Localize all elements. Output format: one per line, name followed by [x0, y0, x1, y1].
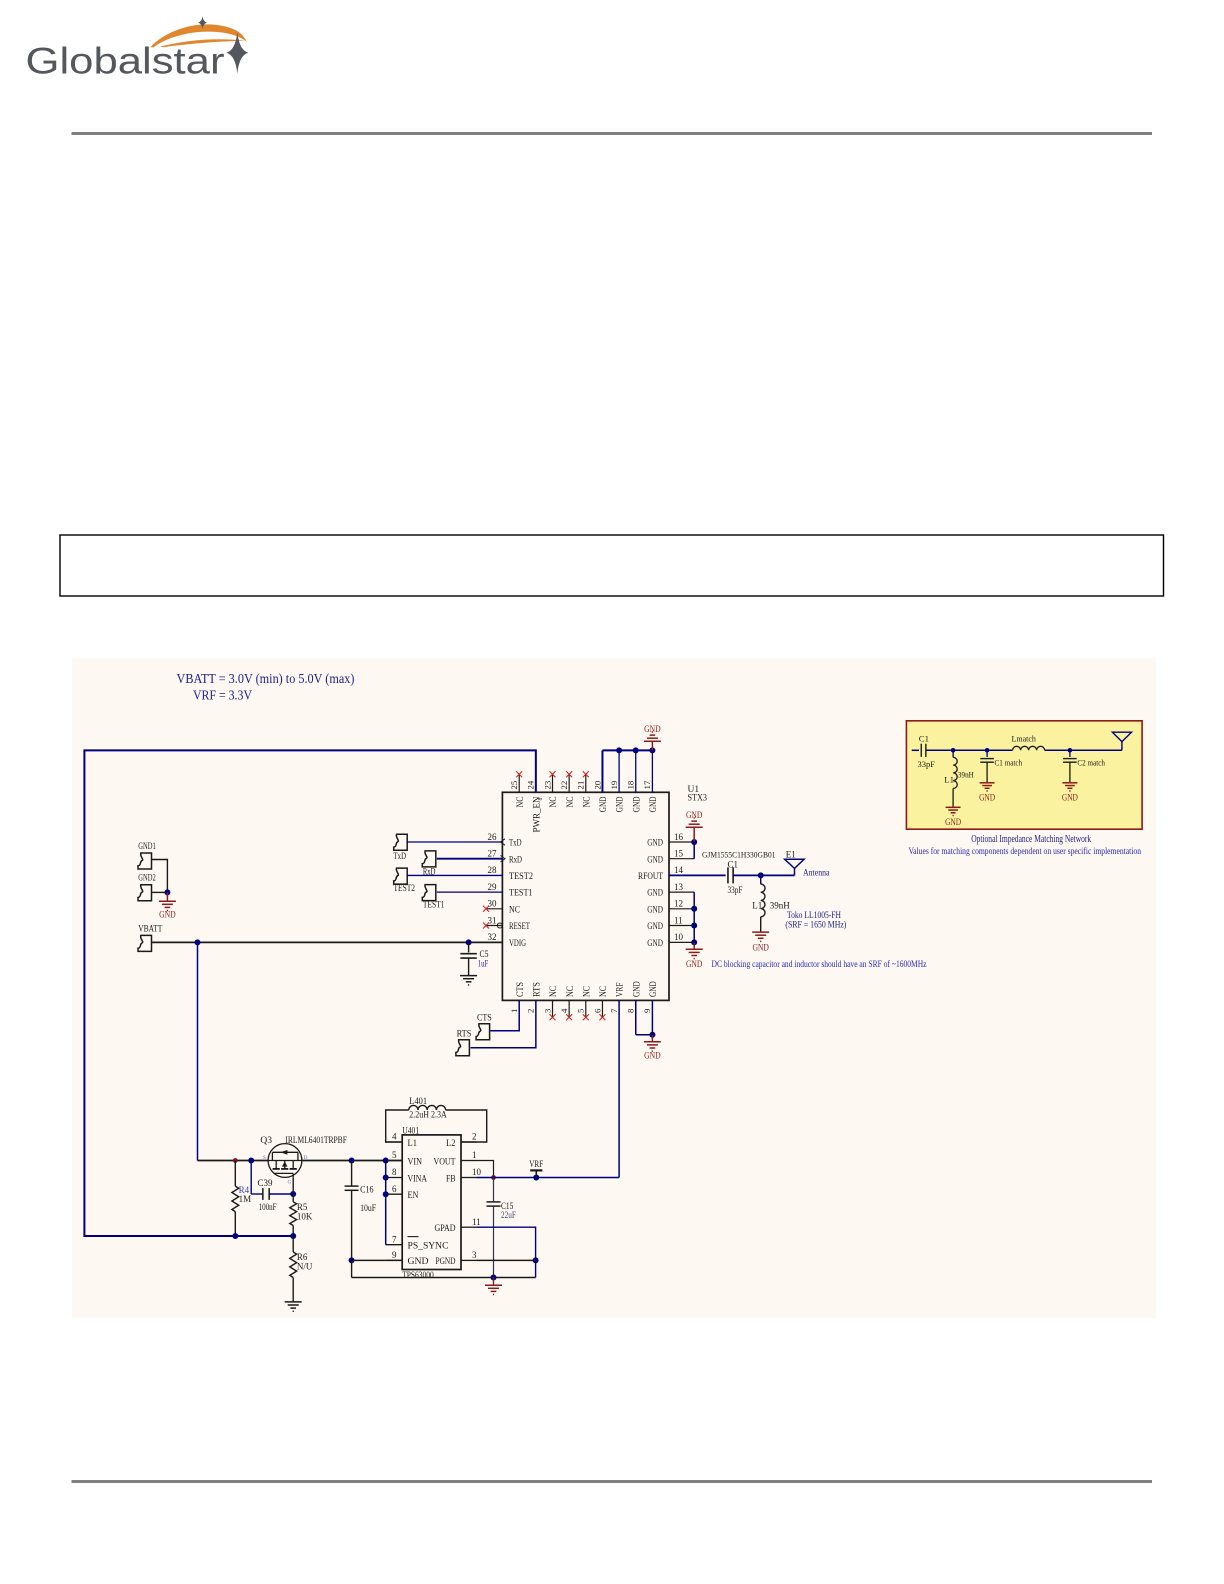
- resistor R4: [234, 1161, 236, 1187]
- svg-text:1M: 1M: [239, 1194, 252, 1204]
- junction R5 bottom: [232, 1233, 238, 1239]
- svg-text:L2: L2: [446, 1138, 456, 1149]
- svg-text:16: 16: [674, 832, 684, 842]
- capacitor C1 match series: [920, 744, 922, 757]
- junction VRF: [533, 1175, 539, 1181]
- svg-text:FB: FB: [446, 1173, 456, 1184]
- svg-text:S: S: [263, 1155, 266, 1161]
- svg-text:GND: GND: [599, 796, 609, 812]
- connector CTS: [476, 1024, 490, 1040]
- wire Q3 drain to VIN: [302, 1160, 402, 1162]
- junction: [466, 939, 472, 945]
- svg-text:7: 7: [609, 1008, 619, 1013]
- svg-text:1: 1: [472, 1150, 477, 1160]
- svg-text:C1 match: C1 match: [995, 758, 1023, 768]
- svg-text:15: 15: [674, 849, 684, 859]
- svg-text:RFOUT: RFOUT: [638, 872, 663, 882]
- wire VBATT down to Q3: [197, 942, 199, 1160]
- wire PGND: [477, 1259, 536, 1261]
- connector GND2: [138, 885, 152, 901]
- junction gate node: [290, 1191, 296, 1197]
- svg-text:39nH: 39nH: [958, 769, 975, 779]
- antenna matching: [1112, 732, 1131, 741]
- ground symbol above pin 16: [693, 827, 695, 842]
- ground symbol power rail: [493, 1278, 495, 1286]
- ground symbol below R6: [285, 1302, 302, 1311]
- svg-text:8: 8: [626, 1008, 636, 1013]
- U401 pin 9 (GND): [386, 1259, 403, 1261]
- svg-text:8: 8: [538, 798, 544, 801]
- junction C16 bottom: [349, 1257, 355, 1263]
- connector RxD: [422, 851, 436, 867]
- svg-text:6: 6: [392, 1184, 397, 1194]
- svg-text:GND: GND: [647, 905, 663, 915]
- svg-text:3: 3: [542, 1008, 552, 1013]
- svg-text:U401: U401: [402, 1126, 419, 1136]
- svg-text:19: 19: [609, 780, 619, 789]
- ground symbol C1match: [980, 783, 995, 791]
- U401 pin 11 (GPAD): [461, 1226, 477, 1228]
- svg-text:NC: NC: [509, 905, 520, 915]
- junction C39 top: [248, 1158, 254, 1164]
- ground symbol below pin 9: [651, 1035, 653, 1042]
- svg-text:33pF: 33pF: [918, 759, 936, 769]
- wire TEST2: [407, 874, 502, 876]
- svg-text:CTS: CTS: [516, 982, 526, 997]
- svg-text:L1: L1: [944, 774, 954, 784]
- U1 pin 17 (GND) top: [651, 750, 653, 792]
- junction: [691, 906, 697, 912]
- svg-text:18: 18: [626, 780, 636, 789]
- wire GND pins 8-9: [635, 1000, 637, 1034]
- svg-text:VRF: VRF: [529, 1160, 543, 1170]
- svg-text:9: 9: [392, 1250, 397, 1260]
- power GND symbol above pin 17: [651, 741, 653, 750]
- svg-text:GND: GND: [649, 796, 659, 812]
- svg-text:NC: NC: [582, 797, 592, 808]
- svg-text:GND: GND: [632, 981, 642, 997]
- svg-text:4: 4: [559, 1008, 569, 1013]
- capacitor C2match shunt: [1068, 748, 1073, 753]
- svg-text:NC: NC: [566, 797, 576, 808]
- junction: [649, 1032, 655, 1038]
- svg-text:TxD: TxD: [509, 839, 522, 849]
- U401 pin 1 (VOUT): [461, 1160, 477, 1162]
- svg-text:TEST2: TEST2: [394, 884, 416, 894]
- svg-text:GND: GND: [408, 1256, 429, 1267]
- wire GND2: [152, 891, 168, 893]
- connector TxD: [394, 834, 408, 850]
- svg-text:2: 2: [472, 1132, 477, 1142]
- U1 pin 20 (GND) top: [601, 750, 603, 792]
- svg-text:GJM1555C1H330GB01: GJM1555C1H330GB01: [702, 849, 776, 859]
- svg-text:5: 5: [576, 1008, 586, 1013]
- svg-text:Q3: Q3: [260, 1136, 272, 1146]
- U1 pin 21 (NC) top: [585, 774, 587, 792]
- wire TEST1: [437, 891, 503, 893]
- svg-text:(SRF = 1650 MHz): (SRF = 1650 MHz): [785, 919, 846, 930]
- svg-text:GND: GND: [647, 939, 663, 949]
- svg-text:NC: NC: [549, 986, 559, 997]
- junction VOUT-FB: [491, 1175, 496, 1180]
- junction: [691, 839, 697, 845]
- svg-text:GND: GND: [647, 839, 663, 849]
- connector GND1: [138, 853, 152, 869]
- svg-text:E1: E1: [786, 850, 796, 860]
- svg-text:7: 7: [392, 1234, 397, 1244]
- svg-text:RTS: RTS: [532, 982, 542, 997]
- svg-text:TxD: TxD: [394, 852, 407, 862]
- U1 pin 19 (GND) top: [618, 750, 620, 792]
- inductor L401: [386, 1110, 409, 1142]
- svg-text:10uF: 10uF: [360, 1203, 376, 1213]
- svg-text:10: 10: [674, 932, 684, 942]
- junction rail: [491, 1275, 497, 1281]
- svg-text:VBATT: VBATT: [138, 924, 162, 934]
- svg-text:GND: GND: [945, 817, 961, 827]
- svg-text:12: 12: [674, 899, 683, 909]
- svg-text:Optional Impedance Matching Ne: Optional Impedance Matching Network: [971, 834, 1091, 845]
- wire RxD: [437, 858, 503, 860]
- junction: [633, 747, 639, 753]
- U401 pin 4 (L1): [386, 1141, 403, 1143]
- svg-text:21: 21: [576, 781, 586, 790]
- svg-text:VRF = 3.3V: VRF = 3.3V: [193, 688, 252, 703]
- svg-text:Values for matching components: Values for matching components dependent…: [909, 846, 1142, 857]
- svg-text:GND: GND: [644, 1052, 661, 1062]
- wire VBATT to VDIG: [152, 941, 503, 943]
- svg-text:26: 26: [488, 832, 498, 842]
- svg-text:17: 17: [642, 780, 652, 789]
- svg-text:L1: L1: [752, 901, 762, 911]
- capacitor C16: [351, 1161, 353, 1186]
- svg-text:11: 11: [674, 915, 683, 925]
- svg-text:29: 29: [488, 882, 498, 892]
- junction: [691, 923, 697, 929]
- svg-text:TEST1: TEST1: [423, 901, 445, 911]
- svg-text:GND: GND: [647, 889, 663, 899]
- wire VRF pin 7 down: [618, 1000, 620, 1177]
- svg-text:L401: L401: [409, 1096, 427, 1106]
- svg-text:PS_SYNC: PS_SYNC: [408, 1241, 449, 1252]
- svg-text:23: 23: [542, 780, 552, 789]
- wire bottom ground rail: [352, 1277, 536, 1279]
- header rule: [72, 132, 1153, 135]
- junction: [758, 872, 764, 878]
- svg-text:10: 10: [472, 1167, 482, 1177]
- U401 pin 6 (EN): [386, 1193, 403, 1195]
- ground symbol below C5: [460, 976, 477, 985]
- junction: [164, 889, 170, 895]
- ground symbol L1 match: [946, 807, 961, 815]
- resistor R5: [292, 1194, 294, 1202]
- junction: [616, 747, 622, 753]
- wire GND pins 15-16: [693, 842, 695, 859]
- U1 pin 25 (NC) top: [518, 774, 520, 792]
- svg-text:11: 11: [472, 1217, 481, 1227]
- wire PWR_EN net top rail: [84, 750, 535, 1236]
- svg-text:GND: GND: [1062, 793, 1078, 803]
- empty note box: [60, 535, 1164, 596]
- svg-text:Lmatch: Lmatch: [1012, 733, 1037, 743]
- wire matching: [926, 749, 1012, 751]
- svg-text:GND: GND: [159, 911, 176, 921]
- svg-text:GND2: GND2: [138, 874, 156, 884]
- svg-text:GND: GND: [979, 793, 995, 803]
- svg-text:VRF: VRF: [616, 983, 626, 998]
- svg-text:EN: EN: [408, 1190, 419, 1201]
- U401 pin 3 (PGND): [461, 1259, 477, 1261]
- U1 pin 22 (NC) top: [568, 774, 570, 792]
- junction C16 top: [349, 1158, 355, 1164]
- wire GND top net: [602, 749, 652, 751]
- wire matching right: [1045, 749, 1122, 751]
- svg-text:24: 24: [526, 780, 536, 789]
- svg-text:PWR_EN: PWR_EN: [532, 796, 542, 832]
- svg-text:VIN: VIN: [408, 1156, 423, 1167]
- svg-text:100nF: 100nF: [259, 1202, 277, 1212]
- capacitor C1match shunt: [985, 748, 990, 753]
- junction: [195, 939, 201, 945]
- svg-text:C2 match: C2 match: [1077, 758, 1105, 768]
- wire Q3 gate: [292, 1177, 294, 1194]
- svg-text:25: 25: [509, 780, 519, 789]
- svg-text:GND: GND: [632, 796, 642, 812]
- svg-text:GND: GND: [647, 922, 663, 932]
- junction: [691, 939, 697, 945]
- svg-text:PGND: PGND: [436, 1256, 456, 1267]
- inductor Lmatch series: [1013, 746, 1045, 750]
- svg-text:RxD: RxD: [509, 855, 522, 865]
- svg-text:GND: GND: [649, 981, 659, 997]
- svg-text:DC blocking capacitor and indu: DC blocking capacitor and inductor shoul…: [712, 959, 927, 970]
- wire matching main: [912, 749, 919, 751]
- svg-text:N/U: N/U: [297, 1262, 313, 1272]
- svg-text:Globalstar: Globalstar: [26, 41, 225, 82]
- capacitor C5: [468, 942, 470, 952]
- junction R4 top: [233, 1158, 238, 1163]
- U1 pin 23 (NC) top: [552, 774, 554, 792]
- svg-text:NC: NC: [566, 986, 576, 997]
- svg-text:14: 14: [674, 865, 684, 875]
- svg-text:G: G: [288, 1180, 292, 1186]
- capacitor C39: [250, 1161, 252, 1195]
- svg-text:R6: R6: [297, 1252, 308, 1262]
- svg-text:1uF: 1uF: [478, 959, 489, 969]
- svg-text:22uF: 22uF: [501, 1210, 516, 1220]
- wire TxD: [407, 841, 502, 843]
- svg-text:L1: L1: [408, 1138, 418, 1149]
- optional matching network box: [906, 721, 1142, 829]
- svg-text:GND: GND: [686, 960, 703, 970]
- svg-text:2: 2: [526, 1009, 536, 1013]
- svg-text:GND: GND: [644, 725, 661, 735]
- wire VBATT rail to MOSFET: [198, 1160, 269, 1162]
- svg-text:1: 1: [509, 1009, 519, 1013]
- footer rule: [72, 1480, 1153, 1483]
- svg-text:GND1: GND1: [138, 842, 156, 852]
- wire RFOUT: [669, 874, 726, 876]
- svg-text:Antenna: Antenna: [803, 869, 830, 879]
- svg-text:NC: NC: [582, 986, 592, 997]
- logo orange swoosh: [151, 24, 247, 47]
- U401 pin 10 (FB): [461, 1177, 477, 1179]
- svg-text:STX3: STX3: [688, 794, 708, 804]
- svg-text:3: 3: [472, 1250, 477, 1260]
- logo big star sparkle: [226, 32, 248, 74]
- svg-text:GPAD: GPAD: [435, 1223, 456, 1234]
- U1 pin 18 (GND) top: [635, 750, 637, 792]
- U401 pin 7 (PS_SYNC): [386, 1244, 403, 1246]
- wire FB / VRF net: [477, 1177, 620, 1179]
- svg-text:4: 4: [392, 1132, 397, 1142]
- power symbol VRF: [535, 1170, 537, 1177]
- connector TEST1: [422, 885, 436, 901]
- svg-text:RESET: RESET: [509, 922, 530, 932]
- capacitor C1 series: [727, 867, 729, 883]
- svg-text:TEST1: TEST1: [509, 889, 533, 899]
- IC U1 body: [502, 792, 669, 1000]
- svg-text:5: 5: [392, 1150, 397, 1160]
- svg-text:6: 6: [592, 1008, 602, 1013]
- svg-text:9: 9: [642, 1008, 652, 1013]
- U401 pin 8 (VINA): [386, 1177, 403, 1179]
- svg-text:NC: NC: [549, 797, 559, 808]
- resistor R6 (not used): [292, 1236, 294, 1252]
- svg-text:28: 28: [488, 865, 498, 875]
- junction: [951, 748, 956, 753]
- wire GND1: [152, 860, 168, 893]
- svg-text:VBATT = 3.0V (min) to 5.0V (ma: VBATT = 3.0V (min) to 5.0V (max): [177, 671, 355, 687]
- junction VIN: [383, 1158, 389, 1164]
- connector TEST2: [394, 868, 408, 884]
- wire VOUT to FB: [477, 1161, 494, 1178]
- ground symbol GND left: [166, 892, 168, 901]
- svg-text:27: 27: [488, 849, 498, 859]
- wire RFOUT to antenna: [733, 874, 794, 876]
- U401 pin 2 (L2): [461, 1141, 477, 1143]
- svg-text:8: 8: [392, 1167, 397, 1177]
- wire CTS: [490, 1000, 519, 1030]
- svg-text:GND: GND: [616, 796, 626, 812]
- junction: [649, 747, 655, 753]
- svg-text:32: 32: [488, 932, 497, 942]
- inductor L1 shunt: [760, 875, 762, 884]
- IC U401 body: [402, 1135, 461, 1270]
- svg-text:NC: NC: [516, 797, 526, 808]
- svg-text:GND: GND: [686, 811, 703, 821]
- wire GND pins 10-13: [693, 892, 695, 942]
- schematic image background: [72, 658, 1156, 1318]
- logo small star: [198, 17, 207, 29]
- svg-text:10K: 10K: [297, 1211, 313, 1221]
- svg-text:VDIG: VDIG: [509, 939, 526, 949]
- svg-text:GND: GND: [647, 855, 663, 865]
- svg-text:CTS: CTS: [477, 1014, 492, 1024]
- ground symbol below pin 10: [693, 942, 695, 949]
- svg-text:20: 20: [592, 780, 602, 789]
- wire GPAD: [477, 1227, 536, 1277]
- svg-text:22: 22: [559, 781, 569, 790]
- svg-text:VINA: VINA: [408, 1173, 428, 1184]
- svg-text:TPS63000: TPS63000: [402, 1271, 434, 1281]
- svg-text:C1: C1: [728, 860, 739, 870]
- svg-text:2.2uH 2.3A: 2.2uH 2.3A: [409, 1109, 447, 1119]
- wire GND pin9 to C16: [352, 1259, 386, 1261]
- connector VBATT: [138, 935, 152, 951]
- svg-text:IRLML6401TRPBF: IRLML6401TRPBF: [285, 1136, 347, 1146]
- wire VIN chain: [385, 1161, 387, 1245]
- junction PGND: [533, 1257, 539, 1263]
- svg-text:VOUT: VOUT: [434, 1156, 456, 1167]
- svg-text:13: 13: [674, 882, 684, 892]
- svg-text:C16: C16: [360, 1184, 374, 1194]
- svg-text:RTS: RTS: [457, 1030, 472, 1040]
- svg-text:C1: C1: [919, 733, 929, 743]
- ground symbol below L1: [752, 932, 769, 941]
- ground symbol C2match: [1062, 783, 1077, 791]
- svg-text:TEST2: TEST2: [509, 872, 533, 882]
- wire RTS: [471, 1000, 536, 1047]
- capacitor C15: [493, 1178, 495, 1202]
- svg-text:33pF: 33pF: [728, 885, 743, 895]
- svg-text:31: 31: [488, 915, 497, 925]
- U401 pin 5 (VIN): [386, 1160, 403, 1162]
- svg-text:C39: C39: [258, 1178, 273, 1188]
- svg-text:NC: NC: [599, 986, 609, 997]
- connector RTS: [456, 1040, 470, 1056]
- svg-text:GND: GND: [752, 944, 769, 954]
- transistor Q3 IRLML6401TRPBF: [268, 1144, 302, 1178]
- svg-text:30: 30: [488, 899, 498, 909]
- inductor L1 match shunt: [952, 750, 954, 757]
